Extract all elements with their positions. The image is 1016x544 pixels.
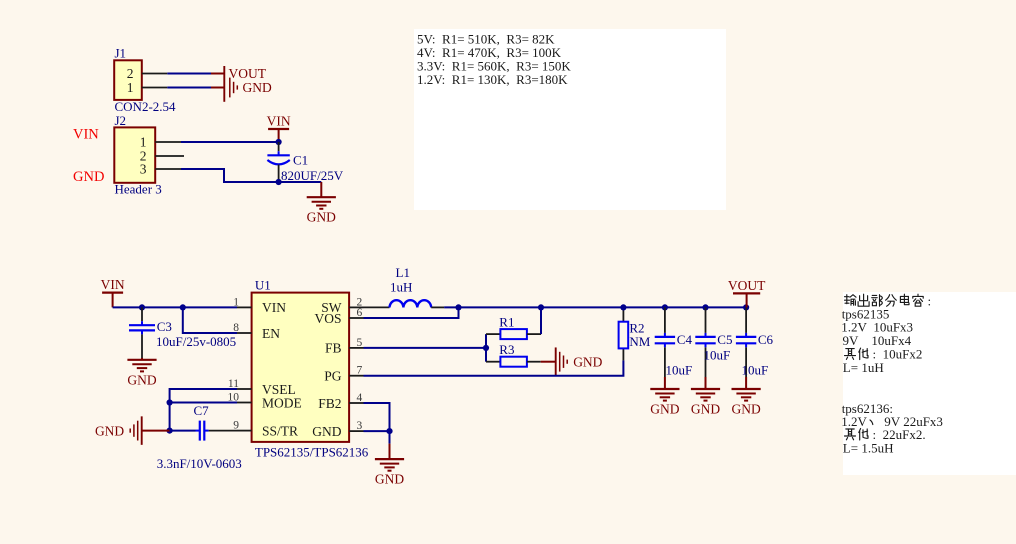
resistor R2 bottom lead bbox=[622, 348, 624, 360]
resistor R2 body bbox=[619, 322, 629, 349]
U1 pin 6 stub bbox=[349, 317, 363, 319]
wire VOS feedback bbox=[364, 307, 459, 318]
svg-text:C4: C4 bbox=[677, 332, 693, 347]
svg-text:J1: J1 bbox=[115, 46, 127, 61]
svg-text:GND: GND bbox=[375, 472, 404, 487]
svg-text:J2: J2 bbox=[115, 113, 127, 128]
svg-text:1: 1 bbox=[233, 296, 239, 308]
capacitor C4 plates bbox=[655, 336, 675, 338]
wire SS node to C7 bbox=[170, 430, 196, 432]
resistor R1 right lead bbox=[527, 333, 541, 335]
resistor R1 left lead bbox=[486, 333, 500, 335]
junction FB2/GND node bbox=[386, 428, 392, 434]
resistor R3 right lead bbox=[527, 361, 541, 363]
port GND (right of R3) bbox=[555, 347, 557, 376]
port VOUT lead segment bbox=[211, 73, 224, 75]
svg-text:FB: FB bbox=[325, 341, 342, 356]
junction R2/rail bbox=[620, 304, 626, 310]
svg-text:VIN: VIN bbox=[262, 300, 286, 315]
svg-text:10uF/25v-0805: 10uF/25v-0805 bbox=[156, 334, 236, 349]
capacitor C4 bottom lead bbox=[664, 347, 666, 377]
svg-text:GND: GND bbox=[307, 210, 336, 225]
wire PG to R2 bbox=[364, 360, 624, 375]
svg-text:3: 3 bbox=[140, 162, 147, 177]
port GND lead segment bbox=[211, 87, 224, 89]
connector J2 pin 2 stub bbox=[155, 155, 184, 157]
port GND bar 3 bbox=[233, 82, 235, 93]
capacitor C3 bottom lead bbox=[141, 334, 143, 358]
svg-text:FB2: FB2 bbox=[318, 396, 341, 411]
svg-text:GND: GND bbox=[243, 80, 272, 95]
junction VSEL/MODE bbox=[167, 399, 173, 405]
capacitor C5 plates bbox=[695, 336, 715, 338]
svg-text:VIN: VIN bbox=[101, 277, 125, 292]
svg-text:3: 3 bbox=[357, 420, 363, 432]
wire GND net J2 pin3 run bbox=[181, 169, 321, 182]
connector J2 pin 3 stub bbox=[155, 168, 181, 170]
svg-text:6: 6 bbox=[357, 307, 363, 319]
svg-text:VOS: VOS bbox=[314, 311, 341, 326]
note frame B (output capacitor note background) bbox=[843, 292, 1016, 475]
ground symbol below C6 bbox=[745, 377, 747, 389]
svg-text:C5: C5 bbox=[717, 332, 732, 347]
U1 pin 11 stub bbox=[237, 388, 252, 390]
ground symbol below C1 bbox=[320, 182, 322, 197]
U1 pin 10 stub bbox=[237, 402, 252, 404]
resistor R1 body bbox=[500, 329, 527, 339]
junction rail/C6 bbox=[743, 304, 749, 310]
junction SS branch bbox=[167, 428, 173, 434]
svg-text:GND: GND bbox=[731, 402, 760, 417]
U1 pin 5 stub bbox=[349, 347, 363, 349]
svg-text:PG: PG bbox=[324, 369, 342, 384]
port GND bar 2 bbox=[229, 78, 231, 98]
svg-text:GND: GND bbox=[73, 169, 104, 185]
svg-text:9: 9 bbox=[233, 420, 239, 432]
U1 pin 2 stub bbox=[349, 306, 363, 308]
svg-text:10uF: 10uF bbox=[742, 363, 769, 378]
svg-text:C3: C3 bbox=[157, 319, 172, 334]
note B line5 其他：10uFx2 bbox=[845, 349, 856, 360]
capacitor C6 bottom lead bbox=[745, 347, 747, 377]
svg-text:TPS62135/TPS62136: TPS62135/TPS62136 bbox=[255, 444, 369, 459]
svg-text:U1: U1 bbox=[255, 278, 271, 293]
svg-text:1: 1 bbox=[140, 135, 147, 150]
svg-text:NM: NM bbox=[629, 334, 650, 349]
junction VIN/C3 bbox=[139, 304, 145, 310]
capacitor C1 top lead bbox=[278, 142, 280, 151]
inductor L1 right lead bbox=[431, 306, 444, 308]
wire VIN net J2 pin1 to C1 bbox=[181, 141, 279, 143]
port GND bar 4 bbox=[236, 85, 238, 89]
svg-text:Header 3: Header 3 bbox=[115, 182, 162, 197]
capacitor C4 top lead bbox=[664, 307, 666, 333]
wire L1 to output rail bbox=[444, 306, 746, 308]
svg-text:MODE: MODE bbox=[262, 395, 302, 410]
wire GND net from J1 pin 1 bbox=[167, 87, 211, 89]
capacitor C3 plates bbox=[129, 324, 155, 326]
connector J1 pin 2 stub bbox=[142, 73, 168, 75]
wire EN branch bbox=[183, 307, 237, 333]
wire FB to divider node bbox=[364, 347, 487, 349]
capacitor C6 plates bbox=[736, 336, 756, 338]
wire C7 to U1 SS/TR pin bbox=[209, 430, 237, 432]
capacitor C5 top lead bbox=[705, 307, 707, 333]
ground symbol below U1 GND pin bbox=[389, 431, 391, 444]
svg-text:SS/TR: SS/TR bbox=[262, 423, 298, 438]
svg-text:L= 1.5uH: L= 1.5uH bbox=[843, 440, 894, 455]
svg-text:10uF: 10uF bbox=[704, 348, 731, 363]
svg-text:GND: GND bbox=[127, 372, 156, 387]
svg-text:2: 2 bbox=[127, 66, 134, 81]
wire FB2 branch bbox=[364, 403, 390, 431]
port VOUT/GND shared bar bbox=[223, 66, 225, 102]
junction VIN/EN branch bbox=[180, 304, 186, 310]
wire VIN rail to U1 pin1 bbox=[113, 306, 237, 308]
capacitor C5 bottom lead bbox=[705, 347, 707, 377]
connector J1 body bbox=[114, 60, 142, 100]
capacitor C7 left plate bbox=[199, 421, 201, 441]
svg-text:VOUT: VOUT bbox=[728, 278, 766, 293]
svg-text:820UF/25V: 820UF/25V bbox=[281, 168, 344, 183]
wire MODE branch bbox=[170, 402, 237, 404]
svg-text:VIN: VIN bbox=[73, 127, 99, 143]
junction rail/C4 bbox=[662, 304, 668, 310]
svg-text:VIN: VIN bbox=[267, 114, 291, 129]
svg-text:1.2V: 1.2V bbox=[841, 414, 867, 429]
junction VOS/rail bbox=[455, 304, 461, 310]
connector J1 pin 1 stub bbox=[142, 87, 168, 89]
svg-text:R1: R1 bbox=[499, 314, 514, 329]
capacitor C1 curved bottom plate bbox=[267, 160, 289, 164]
ground symbol below C4 bbox=[664, 377, 666, 389]
junction FB divider node bbox=[483, 345, 489, 351]
capacitor C7 right plate bbox=[203, 421, 205, 441]
svg-text:1: 1 bbox=[127, 80, 134, 95]
svg-text:1.2V: R1= 130K, R3=180K: 1.2V: R1= 130K, R3=180K bbox=[417, 72, 568, 87]
svg-text:GND: GND bbox=[312, 424, 341, 439]
svg-text:EN: EN bbox=[262, 326, 280, 341]
svg-text:L= 1uH: L= 1uH bbox=[843, 360, 884, 375]
resistor R2 top lead bbox=[622, 307, 624, 321]
svg-text:L1: L1 bbox=[396, 265, 410, 280]
U1 pin 3 stub bbox=[349, 430, 363, 432]
connector J2 pin 1 stub bbox=[155, 141, 181, 143]
wire divider node vertical bbox=[485, 334, 487, 362]
junction C1 bottom / GND rail bbox=[276, 179, 282, 185]
U1 pin 4 stub bbox=[349, 402, 363, 404]
svg-text:C7: C7 bbox=[194, 403, 210, 418]
port GND lead (right of R3) bbox=[541, 361, 556, 363]
svg-text:VOUT: VOUT bbox=[229, 66, 267, 81]
wire GND pin to node bbox=[364, 430, 390, 432]
svg-text:CON2-2.54: CON2-2.54 bbox=[115, 99, 177, 114]
port GND lead to SS node bbox=[142, 430, 170, 432]
wire VOUT net from J1 pin 2 bbox=[167, 73, 211, 75]
svg-text:1uH: 1uH bbox=[390, 280, 412, 295]
svg-text:GND: GND bbox=[95, 423, 124, 438]
U1 pin 9 stub bbox=[237, 430, 252, 432]
svg-text:GND: GND bbox=[573, 354, 602, 369]
port GND (left of SS/TR) bbox=[141, 416, 143, 445]
wire SW to L1 (inductor left lead) bbox=[364, 306, 390, 308]
svg-text:3.3nF/10V-0603: 3.3nF/10V-0603 bbox=[157, 456, 242, 471]
capacitor C6 top lead bbox=[745, 307, 747, 333]
U1 pin 7 stub bbox=[349, 375, 363, 377]
connector J2 body bbox=[114, 127, 155, 182]
svg-text:GND: GND bbox=[691, 402, 720, 417]
capacitor C3 top lead bbox=[141, 307, 143, 321]
svg-text:R3: R3 bbox=[499, 342, 514, 357]
ground symbol below C3 bbox=[141, 358, 143, 360]
svg-text::: : bbox=[928, 293, 932, 308]
svg-text:9V 10uFx4: 9V 10uFx4 bbox=[843, 333, 912, 348]
resistor R3 left lead bbox=[486, 361, 500, 363]
wire R1 to output rail bbox=[540, 307, 542, 334]
svg-text:5: 5 bbox=[357, 337, 363, 349]
wire VSEL branch bbox=[170, 389, 237, 431]
ground symbol below C5 bbox=[705, 377, 707, 389]
svg-text:8: 8 bbox=[233, 322, 239, 334]
svg-text:10: 10 bbox=[228, 392, 240, 404]
regulator U1 body bbox=[252, 293, 350, 442]
svg-text:10uF: 10uF bbox=[666, 363, 693, 378]
capacitor C1 top plate bbox=[267, 154, 289, 156]
capacitor C1 bottom lead bbox=[278, 165, 280, 182]
note frame A (resistor value table background) bbox=[414, 29, 726, 210]
U1 pin 1 stub bbox=[237, 306, 252, 308]
svg-text:C1: C1 bbox=[293, 153, 308, 168]
inductor L1 coil bbox=[390, 300, 432, 307]
svg-text:7: 7 bbox=[357, 365, 363, 377]
svg-text:11: 11 bbox=[228, 378, 239, 390]
svg-text:GND: GND bbox=[650, 402, 679, 417]
U1 pin 8 stub bbox=[237, 332, 252, 334]
junction R1/rail bbox=[538, 304, 544, 310]
junction rail/C5 bbox=[702, 304, 708, 310]
note B line1 Chinese: 输出部分电容： bbox=[845, 295, 857, 306]
resistor R3 body bbox=[500, 357, 527, 367]
svg-text:4: 4 bbox=[357, 392, 363, 404]
note B line9 其他：22uFx2. bbox=[845, 429, 856, 440]
junction VIN/C1 top bbox=[276, 139, 282, 145]
svg-text:C6: C6 bbox=[758, 332, 774, 347]
